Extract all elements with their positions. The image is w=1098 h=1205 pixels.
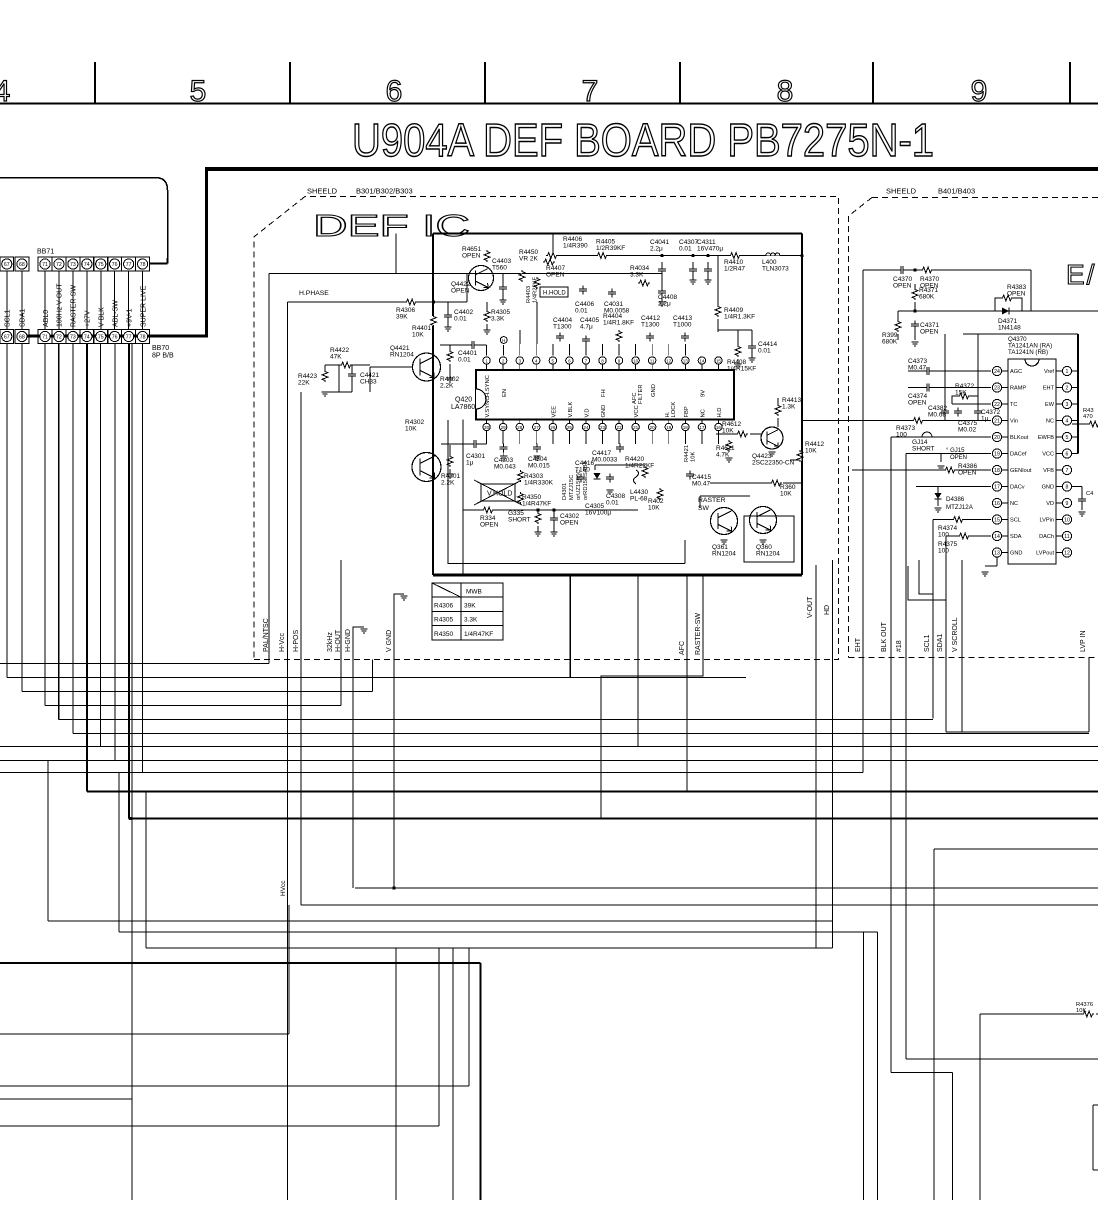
svg-text:PAL/NTSC: PAL/NTSC — [263, 618, 270, 652]
svg-text:1N4148: 1N4148 — [998, 325, 1021, 332]
svg-text:25: 25 — [567, 425, 573, 430]
svg-text:67: 67 — [4, 335, 10, 341]
svg-text:0.01: 0.01 — [575, 308, 588, 315]
svg-text:V GND: V GND — [386, 630, 393, 652]
svg-text:4: 4 — [1066, 419, 1069, 425]
svg-text:R4305: R4305 — [434, 617, 454, 624]
svg-text:OPEN: OPEN — [1007, 291, 1026, 298]
svg-text:BLKout: BLKout — [1010, 435, 1029, 441]
svg-text:22K: 22K — [298, 380, 310, 387]
svg-text:1μ: 1μ — [466, 460, 474, 467]
svg-text:RASTER: RASTER — [698, 497, 726, 504]
svg-text:10K: 10K — [691, 452, 697, 462]
svg-text:DACv: DACv — [1010, 485, 1025, 491]
svg-text:EN: EN — [502, 389, 508, 397]
svg-text:26: 26 — [550, 425, 556, 430]
svg-text:OPEN: OPEN — [893, 283, 912, 290]
svg-text:M0.47: M0.47 — [908, 365, 926, 372]
svg-text:29: 29 — [501, 425, 507, 430]
svg-text:BB70: BB70 — [152, 345, 169, 352]
svg-text:SHORT: SHORT — [912, 446, 935, 453]
svg-text:V SCROLL: V SCROLL — [952, 617, 959, 652]
svg-text:OPEN: OPEN — [908, 400, 927, 407]
svg-text:OPEN: OPEN — [462, 253, 481, 260]
svg-text:12: 12 — [666, 359, 672, 364]
svg-text:74: 74 — [84, 262, 90, 268]
svg-text:2: 2 — [502, 359, 505, 364]
svg-text:72: 72 — [56, 262, 62, 268]
svg-text:DEF IC: DEF IC — [313, 208, 470, 243]
svg-text:100: 100 — [938, 548, 949, 555]
svg-text:EHT: EHT — [1043, 386, 1055, 392]
svg-text:D4301: D4301 — [562, 483, 568, 500]
svg-text:ABL0: ABL0 — [43, 310, 50, 327]
svg-text:GND: GND — [651, 384, 657, 397]
svg-text:NC: NC — [700, 409, 706, 417]
svg-text:68: 68 — [19, 262, 25, 268]
svg-text:1: 1 — [485, 359, 488, 364]
svg-text:1/4R22KF: 1/4R22KF — [533, 276, 539, 303]
svg-text:18: 18 — [683, 425, 689, 430]
svg-text:H.PHASE: H.PHASE — [299, 290, 329, 297]
svg-text:15K: 15K — [955, 390, 967, 397]
svg-text:77: 77 — [126, 262, 132, 268]
svg-text:VEE: VEE — [551, 406, 557, 418]
svg-text:R4306: R4306 — [434, 603, 454, 610]
svg-text:LVP IN: LVP IN — [1080, 630, 1087, 652]
svg-text:15: 15 — [716, 359, 722, 364]
svg-text:71: 71 — [42, 262, 48, 268]
svg-text:39K: 39K — [396, 314, 408, 321]
svg-text:8P B/B: 8P B/B — [152, 353, 174, 360]
svg-text:20: 20 — [994, 435, 1000, 441]
svg-text:11: 11 — [650, 359, 655, 364]
svg-text:SCL1: SCL1 — [5, 309, 12, 327]
svg-text:13: 13 — [994, 551, 1000, 557]
svg-text:100: 100 — [938, 532, 949, 539]
svg-text:R4403: R4403 — [526, 286, 532, 303]
svg-text:73: 73 — [70, 262, 76, 268]
svg-text:OPEN: OPEN — [451, 288, 470, 295]
svg-text:4: 4 — [0, 75, 10, 108]
svg-text:1/2R39KF: 1/2R39KF — [596, 245, 625, 252]
svg-text:RASTER-SW: RASTER-SW — [695, 613, 702, 655]
svg-text:3: 3 — [1066, 402, 1069, 408]
svg-text:17: 17 — [994, 485, 1000, 491]
svg-text:7: 7 — [582, 75, 599, 108]
svg-text:5: 5 — [1066, 435, 1069, 441]
svg-text:FH: FH — [601, 389, 607, 397]
svg-text:1/4R1.3KF: 1/4R1.3KF — [724, 314, 755, 321]
svg-text:67: 67 — [4, 262, 10, 268]
svg-text:14: 14 — [699, 359, 705, 364]
svg-text:Vref: Vref — [1044, 369, 1054, 375]
svg-text:VCC: VCC — [634, 405, 640, 417]
svg-text:H-OUT: H-OUT — [335, 629, 342, 652]
svg-text:MTZJ12A: MTZJ12A — [946, 504, 974, 511]
svg-text:21: 21 — [633, 425, 639, 430]
svg-text:77: 77 — [126, 335, 132, 341]
svg-text:13: 13 — [683, 359, 689, 364]
svg-text:V-BLK: V-BLK — [99, 307, 106, 327]
svg-text:LVPin: LVPin — [1039, 518, 1054, 524]
svg-text:6: 6 — [386, 75, 403, 108]
svg-text:39K: 39K — [464, 603, 476, 610]
svg-text:TC: TC — [1010, 402, 1017, 408]
svg-text:NC: NC — [1010, 501, 1018, 507]
svg-text:M0.015: M0.015 — [528, 463, 550, 470]
svg-text:EWFB: EWFB — [1038, 435, 1054, 441]
svg-text:H-POS: H-POS — [293, 630, 300, 653]
svg-text:4: 4 — [535, 359, 538, 364]
svg-text:C4: C4 — [1086, 491, 1094, 497]
svg-text:32kHz: 32kHz — [327, 632, 334, 652]
svg-text:H.SYNC: H.SYNC — [485, 375, 491, 397]
svg-text:VFB: VFB — [1043, 468, 1054, 474]
svg-text:7: 7 — [585, 359, 588, 364]
svg-text:8: 8 — [1066, 485, 1069, 491]
svg-text:T160: T160 — [575, 467, 590, 474]
svg-text:1.3K: 1.3K — [782, 404, 796, 411]
svg-text:74: 74 — [84, 335, 90, 341]
svg-text:72: 72 — [56, 335, 62, 341]
svg-text:27: 27 — [534, 425, 540, 430]
svg-text:MWB: MWB — [466, 589, 482, 596]
svg-text:R4421: R4421 — [684, 445, 690, 462]
svg-text:10K: 10K — [405, 426, 417, 433]
svg-text:16V100μ: 16V100μ — [585, 510, 611, 517]
svg-text:V.SYNC: V.SYNC — [485, 396, 491, 417]
svg-text:9: 9 — [971, 75, 988, 108]
svg-text:PL-68: PL-68 — [630, 496, 648, 503]
svg-text:OPEN: OPEN — [958, 470, 977, 477]
svg-text:2.2K: 2.2K — [441, 480, 455, 487]
svg-text:+9V-1: +9V-1 — [126, 308, 133, 327]
svg-text:RN1204: RN1204 — [390, 352, 414, 359]
svg-text:GND: GND — [1042, 485, 1054, 491]
svg-text:AGC: AGC — [1010, 369, 1022, 375]
svg-text:73: 73 — [70, 335, 76, 341]
svg-text:T560: T560 — [492, 265, 507, 272]
svg-text:CH33: CH33 — [360, 379, 377, 386]
svg-text:T1300: T1300 — [553, 324, 572, 331]
svg-text:47K: 47K — [330, 354, 342, 361]
svg-text:SDA1: SDA1 — [937, 634, 944, 652]
svg-text:B401/B403: B401/B403 — [938, 187, 975, 196]
svg-text:SDA1: SDA1 — [20, 309, 27, 327]
svg-text:10K: 10K — [1076, 1008, 1086, 1014]
svg-text:470: 470 — [1083, 414, 1093, 420]
svg-text:76: 76 — [112, 335, 118, 341]
svg-text:1/2R47: 1/2R47 — [724, 266, 745, 273]
svg-text:0.01: 0.01 — [679, 246, 692, 253]
svg-text:RN1204: RN1204 — [756, 551, 780, 558]
svg-text:Vin: Vin — [1010, 419, 1018, 425]
svg-text:14: 14 — [994, 534, 1000, 540]
svg-text:V.D: V.D — [585, 408, 591, 417]
svg-text:23: 23 — [994, 386, 1000, 392]
svg-text:1/4R1.8KF: 1/4R1.8KF — [603, 320, 634, 327]
svg-text:8: 8 — [601, 359, 604, 364]
svg-text:10: 10 — [633, 359, 639, 364]
svg-text:30: 30 — [484, 425, 490, 430]
svg-text:0.01: 0.01 — [458, 357, 471, 364]
svg-text:BB71: BB71 — [37, 249, 54, 256]
svg-text:76: 76 — [112, 262, 118, 268]
svg-text:23: 23 — [600, 425, 606, 430]
svg-text:+27V: +27V — [85, 310, 92, 327]
svg-text:16: 16 — [716, 425, 722, 430]
svg-text:RAMP: RAMP — [1010, 386, 1026, 392]
svg-text:20: 20 — [650, 425, 656, 430]
svg-text:17: 17 — [699, 425, 705, 430]
svg-text:19: 19 — [994, 452, 1000, 458]
svg-text:M0.02: M0.02 — [958, 427, 976, 434]
svg-text:24: 24 — [583, 425, 589, 430]
svg-text:75: 75 — [98, 262, 104, 268]
svg-text:16: 16 — [994, 501, 1000, 507]
svg-text:6: 6 — [568, 359, 571, 364]
svg-text:EW: EW — [1045, 402, 1055, 408]
svg-text:FBP: FBP — [684, 406, 690, 417]
svg-text:10K: 10K — [780, 491, 792, 498]
svg-text:M0.0033: M0.0033 — [592, 457, 618, 464]
svg-text:R4350: R4350 — [434, 631, 454, 638]
svg-text:3.3K: 3.3K — [464, 617, 478, 624]
svg-text:19: 19 — [666, 425, 672, 430]
svg-text:1/4R330K: 1/4R330K — [524, 480, 554, 487]
svg-text:FILTER: FILTER — [638, 384, 644, 404]
svg-text:78: 78 — [140, 335, 146, 341]
svg-text:9: 9 — [1066, 501, 1069, 507]
svg-text:OPEN: OPEN — [560, 520, 579, 527]
svg-text:2SC22350-CN: 2SC22350-CN — [752, 460, 795, 467]
svg-text:LA7860: LA7860 — [451, 404, 475, 411]
svg-text:22: 22 — [617, 425, 623, 430]
svg-text:VR 2K: VR 2K — [519, 256, 538, 263]
svg-text:GND: GND — [601, 405, 607, 418]
svg-text:OPEN: OPEN — [920, 329, 939, 336]
svg-text:RASTER-SW: RASTER-SW — [71, 285, 78, 327]
svg-text:H.: H. — [665, 411, 671, 417]
svg-text:OPEN: OPEN — [480, 522, 499, 529]
svg-text:AFC: AFC — [679, 641, 686, 655]
svg-text:SHEELD: SHEELD — [886, 187, 917, 196]
svg-text:SUPER LIVE: SUPER LIVE — [140, 285, 147, 327]
svg-text:1/4R390: 1/4R390 — [563, 243, 588, 250]
svg-text:DACh: DACh — [1039, 534, 1054, 540]
svg-text:75: 75 — [98, 335, 104, 341]
svg-text:M0.043: M0.043 — [494, 464, 516, 471]
svg-text:2.2μ: 2.2μ — [650, 246, 663, 253]
svg-text:VCC: VCC — [1042, 452, 1054, 458]
svg-text:E/: E/ — [1066, 259, 1096, 290]
svg-text:SCL: SCL — [1010, 518, 1021, 524]
svg-text:GENIout: GENIout — [1010, 468, 1032, 474]
svg-text:V.BLK: V.BLK — [568, 401, 574, 417]
svg-text:U904A DEF BOARD PB7275N-1: U904A DEF BOARD PB7275N-1 — [352, 114, 934, 166]
svg-text:3.3K: 3.3K — [630, 272, 644, 279]
svg-text:ABL-SW: ABL-SW — [113, 300, 120, 327]
svg-text:4.7μ: 4.7μ — [580, 324, 593, 331]
svg-text:5: 5 — [552, 359, 555, 364]
svg-text:DACef: DACef — [1010, 452, 1027, 458]
svg-text:680K: 680K — [882, 339, 898, 346]
svg-text:10K: 10K — [805, 448, 817, 455]
svg-text:H.D: H.D — [717, 408, 723, 418]
svg-text:LVPout: LVPout — [1036, 551, 1054, 557]
svg-text:AFC: AFC — [632, 392, 638, 404]
svg-text:68: 68 — [19, 335, 25, 341]
svg-text:HVcc: HVcc — [280, 880, 287, 896]
svg-text:0.01: 0.01 — [454, 316, 467, 323]
svg-text:HD: HD — [824, 605, 831, 615]
svg-text:V-OUT: V-OUT — [807, 596, 814, 618]
svg-text:LOCK: LOCK — [671, 402, 677, 418]
svg-text:SHEELD: SHEELD — [307, 187, 338, 196]
svg-text:100: 100 — [896, 432, 907, 439]
svg-text:11: 11 — [1064, 534, 1069, 540]
svg-text:T1000: T1000 — [673, 322, 692, 329]
svg-text:3: 3 — [518, 359, 521, 364]
svg-text:2.2K: 2.2K — [440, 383, 454, 390]
svg-text:TA1241N (RB): TA1241N (RB) — [1008, 349, 1048, 356]
svg-text:0.01: 0.01 — [606, 500, 619, 507]
svg-text:TLN3073: TLN3073 — [762, 266, 789, 273]
svg-text:VD: VD — [1046, 501, 1054, 507]
svg-text:SDA: SDA — [1010, 534, 1022, 540]
svg-text:6: 6 — [1066, 452, 1069, 458]
svg-text:OPEN: OPEN — [546, 272, 565, 279]
svg-text:100Hz V-OUT: 100Hz V-OUT — [57, 283, 64, 327]
svg-text:1/4R15KF: 1/4R15KF — [727, 366, 756, 373]
svg-text:1μ: 1μ — [981, 416, 989, 423]
svg-text:SCL1: SCL1 — [924, 634, 931, 652]
svg-text:22: 22 — [994, 402, 1000, 408]
svg-text:680K: 680K — [919, 294, 935, 301]
svg-text:2: 2 — [1066, 386, 1069, 392]
svg-text:10: 10 — [1064, 518, 1070, 524]
svg-text:0.01: 0.01 — [758, 348, 771, 355]
svg-text:12: 12 — [1064, 551, 1070, 557]
svg-text:H-GND: H-GND — [345, 629, 352, 652]
svg-text:1/4R22KF: 1/4R22KF — [625, 463, 654, 470]
svg-text:GND: GND — [1010, 551, 1022, 557]
svg-text:5: 5 — [190, 75, 207, 108]
svg-text:H: H — [502, 338, 505, 343]
svg-text:RN1204: RN1204 — [712, 551, 736, 558]
svg-text:M0.68: M0.68 — [928, 412, 946, 419]
svg-text:7: 7 — [1066, 468, 1069, 474]
svg-text:1: 1 — [1066, 369, 1069, 375]
svg-text:8: 8 — [777, 75, 794, 108]
svg-text:#18: #18 — [896, 640, 903, 652]
svg-text:15: 15 — [994, 518, 1000, 524]
svg-text:9V: 9V — [700, 390, 706, 397]
svg-text:1/4R47KF: 1/4R47KF — [464, 631, 493, 638]
svg-text:M0.47: M0.47 — [692, 481, 710, 488]
svg-text:NC: NC — [1046, 419, 1054, 425]
svg-text:BLK OUT: BLK OUT — [881, 621, 888, 652]
svg-text:T1300: T1300 — [641, 322, 660, 329]
svg-text:B301/B302/B303: B301/B302/B303 — [356, 187, 413, 196]
svg-text:3.3K: 3.3K — [491, 316, 505, 323]
svg-text:10K: 10K — [648, 505, 660, 512]
svg-text:78: 78 — [140, 262, 146, 268]
svg-text:10K: 10K — [412, 332, 424, 339]
svg-text:21: 21 — [994, 419, 1000, 425]
svg-text:EHT: EHT — [855, 637, 862, 652]
svg-text:SHORT: SHORT — [508, 517, 531, 524]
svg-text:OPEN: OPEN — [950, 455, 967, 461]
svg-text:H-Vcc: H-Vcc — [279, 632, 286, 652]
svg-text:Q420: Q420 — [455, 397, 472, 404]
svg-text:D4386: D4386 — [946, 496, 965, 503]
svg-text:28: 28 — [517, 425, 523, 430]
svg-text:H.HOLD: H.HOLD — [543, 291, 566, 297]
svg-text:71: 71 — [42, 335, 48, 341]
svg-text:18: 18 — [994, 468, 1000, 474]
svg-text:24: 24 — [994, 369, 1000, 375]
svg-text:MTZJ15C: MTZJ15C — [569, 475, 575, 500]
svg-text:1/4R47KF: 1/4R47KF — [522, 501, 551, 508]
svg-text:16V470μ: 16V470μ — [697, 246, 723, 253]
svg-text:9: 9 — [618, 359, 621, 364]
